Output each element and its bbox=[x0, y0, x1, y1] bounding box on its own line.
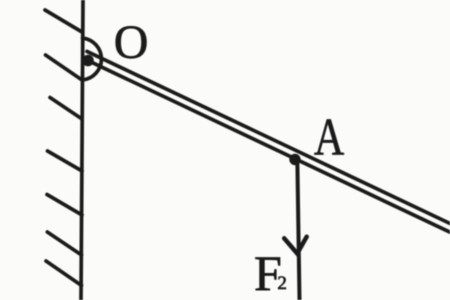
hatch 5 bbox=[47, 195, 82, 216]
rod lower line bbox=[88, 61, 450, 233]
rod upper line bbox=[87, 51, 450, 223]
svg-text:O: O bbox=[114, 16, 149, 69]
pivot hinge arc at O (half-circle on wall) bbox=[83, 38, 102, 80]
node A dot bbox=[289, 154, 300, 165]
pivot dot at O bbox=[82, 55, 94, 67]
svg-text:2: 2 bbox=[277, 273, 287, 294]
wall line bbox=[81, 0, 83, 300]
hatch 7 bbox=[46, 261, 82, 286]
hatch 6 bbox=[47, 232, 81, 255]
hatch 3 bbox=[50, 98, 82, 120]
force F2 line (string from A) bbox=[297, 158, 299, 300]
arrow tip blob bbox=[294, 250, 300, 256]
hatch 4 bbox=[48, 151, 83, 171]
svg-text:A: A bbox=[314, 108, 345, 167]
hatch 2 bbox=[46, 55, 83, 80]
hatch 1 bbox=[45, 10, 82, 32]
arrowhead of F2 bbox=[284, 237, 307, 254]
